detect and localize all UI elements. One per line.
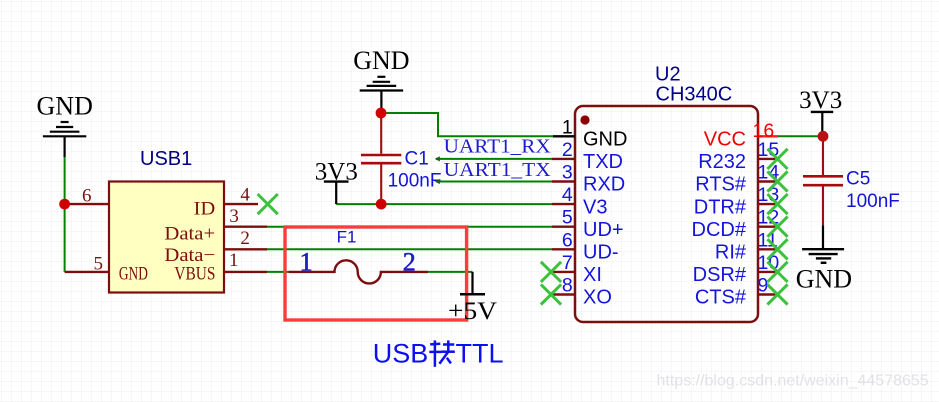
svg-text:C1: C1 (405, 149, 429, 170)
svg-text:DSR#: DSR# (693, 264, 747, 286)
svg-text:6: 6 (82, 185, 92, 206)
pin 9 of U2 (758, 293, 777, 295)
pin 1 of USB1 (224, 271, 267, 273)
capacitor C1 (361, 113, 401, 204)
power port 3V3 (left) (324, 182, 349, 205)
svg-text:DCD#: DCD# (692, 219, 747, 241)
selection highlight box around fuse F1 (285, 227, 467, 320)
pin 1 orientation dot (U2) (580, 115, 589, 124)
svg-text:U2: U2 (655, 64, 681, 86)
no-connect X on U2 pin 12 (767, 217, 787, 237)
pin 2 of USB1 (224, 248, 267, 250)
junction dot at USB1 pin 6 / GND wire (59, 199, 70, 210)
wire 3V3 net: 3V3 power port through C1 junction to U2 pin 4 (336, 203, 552, 205)
pin names GND,TXD,RXD,V3,UD+,UD-,XI,XO (U2 left) (583, 129, 627, 309)
svg-text:VBUS: VBUS (174, 264, 215, 285)
no-connect X on U2 pin 11 (767, 239, 787, 259)
ground symbol GND (top center) (360, 77, 403, 113)
svg-text:GND: GND (37, 92, 93, 121)
svg-text:UART1_RX: UART1_RX (444, 136, 551, 158)
svg-text:GND: GND (796, 265, 852, 294)
svg-text:VCC: VCC (704, 129, 746, 151)
svg-text:5: 5 (93, 253, 103, 274)
svg-text:1: 1 (300, 248, 313, 277)
svg-text:CTS#: CTS# (695, 287, 747, 309)
svg-text:https://blog.csdn.net/weixin_4: https://blog.csdn.net/weixin_44578655 (657, 373, 929, 390)
svg-text:RTS#: RTS# (695, 174, 747, 196)
wire +5V net: fuse F1 pin 2 to +5V power port (428, 271, 473, 273)
svg-text:UD+: UD+ (583, 219, 624, 241)
svg-text:3: 3 (229, 206, 239, 227)
connector USB1 body (109, 182, 224, 293)
wire UART1_RX net: to U2 pin 2 (436, 158, 553, 160)
pin 8 of U2 (552, 293, 575, 295)
power port +5V (460, 272, 485, 294)
wire UART1_TX net: to U2 pin 3 (436, 181, 553, 183)
svg-text:3V3: 3V3 (315, 158, 358, 185)
svg-text:2: 2 (403, 248, 416, 277)
svg-text:TXD: TXD (583, 151, 623, 173)
svg-text:F1: F1 (337, 228, 357, 247)
no-connect X on U2 pin 9 (767, 284, 787, 304)
svg-text:Data+: Data+ (164, 223, 215, 244)
pin 6 of U2 (552, 248, 575, 250)
pin 6 of USB1 (65, 203, 109, 205)
pin 7 of U2 (552, 271, 575, 273)
svg-text:4: 4 (240, 184, 250, 205)
no-connect X on U2 pin 7 (541, 262, 561, 282)
wire 3V3 net: U2 pin 16 to C5 junction (777, 135, 823, 137)
svg-text:100nF: 100nF (388, 170, 442, 191)
pin 12 of U2 (758, 225, 777, 227)
svg-text:USB1: USB1 (140, 148, 192, 170)
pin 2 of U2 (552, 158, 575, 160)
junction dot at C1 / 3V3 wire (376, 199, 387, 210)
svg-text:GND: GND (353, 46, 409, 75)
svg-text:3: 3 (562, 162, 573, 184)
svg-text:+5V: +5V (448, 298, 497, 325)
no-connect X on U2 pin 13 (767, 194, 787, 214)
pin 4 of USB1 (224, 203, 258, 205)
ground symbol GND (left) (43, 122, 86, 157)
svg-text:5: 5 (562, 207, 573, 229)
wire GND net: top ground junction to U2 pin 1 (381, 113, 553, 136)
pin 14 of U2 (758, 180, 777, 182)
junction dot at top ground / C1 (376, 108, 387, 119)
wire GND net: left vertical from ground to USB1 pin 5 (64, 157, 66, 272)
junction dot at U2 pin 16 / C5 / 3V3 (818, 131, 829, 142)
pin 15 of U2 (758, 158, 777, 160)
pin 4 of U2 (552, 203, 575, 205)
svg-text:UD-: UD- (583, 242, 619, 264)
svg-text:GND: GND (119, 264, 148, 285)
svg-text:6: 6 (562, 229, 573, 251)
wire GND net: C5 to right ground (822, 225, 824, 249)
no-connect X on USB1 pin 4 (258, 194, 278, 214)
svg-text:TTL: TTL (456, 338, 504, 368)
wire end marker on UART1_TX (435, 179, 440, 184)
pin 5 of USB1 (65, 271, 109, 273)
pin 3 of USB1 (224, 225, 267, 227)
svg-text:XI: XI (583, 264, 602, 286)
svg-text:2: 2 (562, 139, 573, 161)
svg-text:UART1_TX: UART1_TX (444, 159, 551, 181)
svg-text:R232: R232 (698, 151, 746, 173)
svg-text:C5: C5 (846, 168, 870, 189)
svg-text:GND: GND (583, 129, 627, 151)
fuse F1 element (289, 260, 428, 283)
svg-text:1: 1 (229, 250, 239, 271)
caption glyph 转 drawn as strokes (429, 340, 455, 366)
no-connect X on U2 pin 15 (767, 149, 787, 169)
pin 16 of U2 (highlighted red) (758, 135, 778, 137)
svg-text:RI#: RI# (715, 242, 747, 264)
svg-text:CH340C: CH340C (656, 83, 733, 105)
pin 5 of U2 (552, 225, 575, 227)
wire end marker on UART1_RX (435, 156, 440, 161)
svg-text:1: 1 (562, 116, 573, 138)
pin 11 of U2 (758, 248, 777, 250)
IC U2 CH340C body (575, 106, 758, 322)
ground symbol GND (right) (802, 249, 844, 263)
svg-text:3V3: 3V3 (799, 87, 842, 114)
pin numbers 16-9 (U2 right) (753, 120, 780, 297)
no-connect X on U2 pin 14 (767, 171, 787, 191)
capacitor C5 (803, 136, 843, 225)
svg-text:2: 2 (240, 228, 250, 249)
pin numbers 1-8 (U2 left) (562, 116, 573, 296)
svg-text:V3: V3 (583, 196, 607, 218)
svg-text:ID: ID (194, 199, 216, 220)
svg-text:DTR#: DTR# (694, 196, 747, 218)
power port 3V3 (right) (811, 112, 833, 136)
wire UD+ net: USB1 pin 3 to U2 pin 5 (267, 226, 552, 228)
svg-text:4: 4 (562, 184, 573, 206)
pin 10 of U2 (758, 271, 777, 273)
no-connect X on U2 pin 8 (541, 284, 561, 304)
svg-text:USB: USB (373, 338, 429, 368)
svg-text:8: 8 (562, 275, 573, 297)
svg-text:100nF: 100nF (846, 191, 900, 212)
no-connect X on U2 pin 10 (767, 262, 787, 282)
pin names VCC,R232,RTS#,DTR#,DCD#,RI#,DSR#,CTS# (U2 right) (692, 129, 747, 309)
wire VBUS net: USB1 pin 1 to fuse F1 pin 1 (267, 271, 289, 273)
wire UD- net: USB1 pin 2 to U2 pin 6 (267, 248, 552, 250)
svg-text:XO: XO (583, 287, 612, 309)
pin 1 of U2 (GND, black) (553, 135, 575, 137)
pin 3 of U2 (552, 180, 575, 182)
pin 13 of U2 (758, 203, 777, 205)
svg-text:RXD: RXD (583, 174, 625, 196)
svg-text:7: 7 (562, 252, 573, 274)
